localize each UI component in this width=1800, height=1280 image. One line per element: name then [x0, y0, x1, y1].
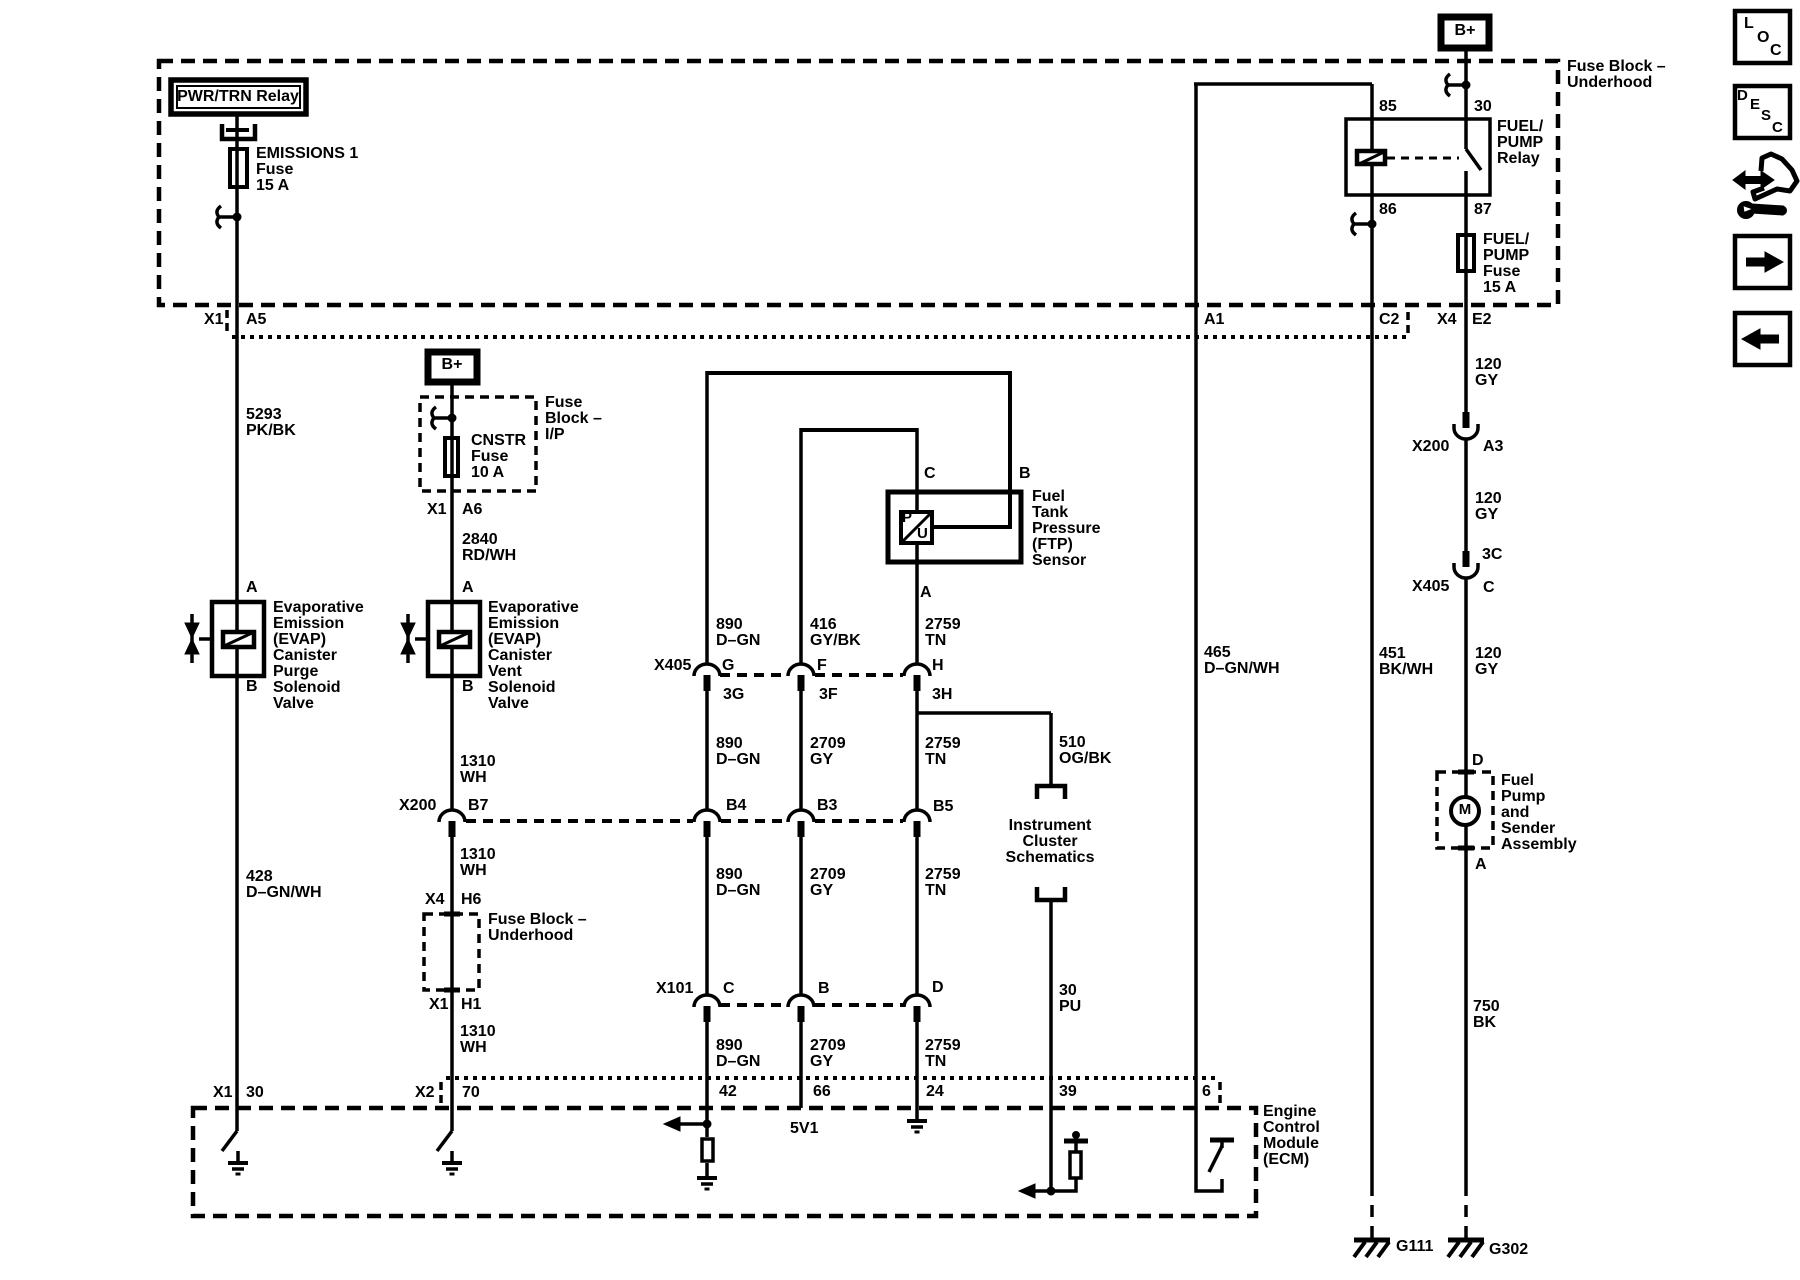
svg-text:TN: TN — [925, 1053, 946, 1070]
relay name label — [1497, 118, 1544, 167]
svg-text:15 A: 15 A — [1483, 279, 1517, 296]
svg-text:and: and — [1501, 804, 1529, 821]
wire: 30 PU to ECM pin 39 — [1049, 902, 1053, 1191]
svg-text:465: 465 — [1204, 644, 1231, 661]
connector X405 G — [694, 657, 734, 691]
svg-text:416: 416 — [810, 616, 837, 633]
svg-text:X1: X1 — [427, 501, 447, 518]
svg-text:87: 87 — [1474, 201, 1492, 218]
relay coil — [1357, 151, 1385, 164]
svg-text:A3: A3 — [1483, 438, 1504, 455]
svg-text:G111: G111 — [1396, 1238, 1433, 1255]
forward arrow icon box — [1735, 236, 1790, 288]
svg-text:890: 890 — [716, 1037, 743, 1054]
fuse block I/P dashed box — [420, 397, 536, 491]
svg-text:Block –: Block – — [545, 410, 602, 427]
svg-text:BK: BK — [1473, 1014, 1497, 1031]
svg-text:FUEL/: FUEL/ — [1497, 118, 1544, 135]
svg-text:24: 24 — [926, 1083, 944, 1100]
engine control module dashed box — [193, 1108, 1256, 1216]
svg-text:Assembly: Assembly — [1501, 836, 1577, 853]
svg-text:1310: 1310 — [460, 846, 496, 863]
svg-text:B: B — [818, 980, 830, 997]
svg-text:Solenoid: Solenoid — [488, 679, 556, 696]
svg-text:WH: WH — [460, 1039, 487, 1056]
svg-text:Control: Control — [1263, 1119, 1320, 1136]
PWR/TRN Relay label box — [171, 80, 306, 114]
wire label 1310 WH (middle) — [460, 846, 496, 879]
svg-text:2709: 2709 — [810, 735, 846, 752]
svg-text:D–GN: D–GN — [716, 632, 760, 649]
svg-text:PUMP: PUMP — [1483, 247, 1530, 264]
relay pin labels 86 87 — [1379, 201, 1492, 218]
svg-text:A: A — [462, 579, 474, 596]
svg-text:30: 30 — [246, 1084, 264, 1101]
X1 H1 labels — [429, 996, 482, 1013]
svg-text:Fuel: Fuel — [1032, 488, 1065, 505]
svg-text:S: S — [1761, 107, 1771, 124]
wire labels 890 D-GN / 416 GY/BK / 2759 TN — [716, 616, 760, 649]
svg-text:X4: X4 — [425, 891, 445, 908]
connector row X101 dashed line — [720, 1003, 787, 1007]
svg-text:Emission: Emission — [488, 615, 559, 632]
connector X101 D — [904, 979, 944, 1022]
X2 70 pin labels — [415, 1082, 480, 1105]
ECM pin 70 switch to ground — [437, 1131, 462, 1174]
wire: ECM pin 6 to fuel pump relay coil (ckt 465 D-GN/WH) — [1194, 84, 1198, 1108]
svg-text:D–GN: D–GN — [716, 882, 760, 899]
svg-text:Underhood: Underhood — [1567, 74, 1652, 91]
C2 label — [1379, 311, 1408, 338]
wire label 1310 WH (upper) — [460, 753, 496, 786]
wire: fuel pump to ground G302 (ckt 750 BK) — [1464, 848, 1468, 1184]
svg-text:451: 451 — [1379, 645, 1406, 662]
svg-text:2759: 2759 — [925, 866, 961, 883]
A1 label — [1204, 311, 1225, 328]
svg-text:D–GN: D–GN — [716, 1053, 760, 1070]
fuel pump motor — [1451, 797, 1479, 825]
svg-text:Fuse: Fuse — [545, 394, 582, 411]
fuel pump assembly label — [1501, 772, 1577, 853]
svg-text:6: 6 — [1202, 1083, 1211, 1100]
svg-text:2759: 2759 — [925, 1037, 961, 1054]
connector X405 C (inline) — [1412, 551, 1495, 596]
svg-text:Fuse: Fuse — [1483, 263, 1520, 280]
instrument cluster top bracket — [1037, 786, 1065, 799]
fuel pump relay box — [1346, 119, 1490, 195]
svg-text:Fuse Block –: Fuse Block – — [488, 911, 587, 928]
wire: FTP sensor A to X405 H (ckt 2759 TN) — [915, 543, 919, 664]
wire below X405 C to fuel pump — [1464, 578, 1468, 848]
wire: relay 87 through fuel pump fuse — [1464, 195, 1468, 412]
separator right of pin 6 — [1218, 1082, 1222, 1105]
relay pin labels 85 30 — [1379, 98, 1492, 115]
svg-text:A1: A1 — [1204, 311, 1225, 328]
svg-text:RD/WH: RD/WH — [462, 547, 516, 564]
svg-text:D–GN/WH: D–GN/WH — [246, 884, 322, 901]
svg-text:F: F — [817, 657, 827, 674]
svg-text:Canister: Canister — [488, 647, 552, 664]
svg-text:X101: X101 — [656, 980, 693, 997]
svg-text:TN: TN — [925, 632, 946, 649]
wire label 1310 WH (lower) — [460, 1023, 496, 1056]
X1 A6 labels — [427, 501, 483, 518]
ECM pin number labels 42 66 24 39 6 — [719, 1083, 1211, 1100]
svg-text:85: 85 — [1379, 98, 1397, 115]
fuel pump and sender assembly dashed box — [1437, 772, 1493, 848]
X1 30 pin labels — [213, 1084, 264, 1101]
svg-text:O: O — [1757, 29, 1769, 46]
svg-text:Relay: Relay — [1497, 150, 1540, 167]
svg-text:B4: B4 — [726, 797, 747, 814]
svg-text:GY: GY — [1475, 661, 1498, 678]
svg-text:PK/BK: PK/BK — [246, 422, 296, 439]
svg-text:3H: 3H — [932, 686, 952, 703]
connector X101 C — [694, 980, 735, 1022]
svg-text:86: 86 — [1379, 201, 1397, 218]
fuse block underhood dashed box — [159, 61, 1558, 305]
wire: relay 86 to ground G111 (ckt 451) — [1370, 195, 1374, 1184]
connector row X405 dashed line — [720, 673, 787, 677]
svg-text:C: C — [1770, 42, 1782, 59]
connector X200 B3 — [788, 797, 838, 837]
svg-text:C: C — [1772, 119, 1783, 136]
pin D label (fuel pump) — [1472, 752, 1484, 769]
pin A label (fuel pump) — [1475, 856, 1487, 873]
svg-text:66: 66 — [813, 1083, 831, 1100]
svg-text:Sender: Sender — [1501, 820, 1555, 837]
svg-text:Fuse: Fuse — [256, 161, 293, 178]
ground G302 — [1448, 1240, 1528, 1258]
svg-text:B3: B3 — [817, 797, 838, 814]
ECM pin 24 internal ground — [907, 1108, 927, 1132]
svg-text:X4: X4 — [1437, 311, 1457, 328]
wire label 510 OG/BK — [1059, 734, 1112, 767]
svg-text:Valve: Valve — [273, 695, 314, 712]
svg-text:A: A — [246, 579, 258, 596]
svg-text:Solenoid: Solenoid — [273, 679, 341, 696]
wires into ECM — [705, 1020, 709, 1137]
svg-text:Canister: Canister — [273, 647, 337, 664]
svg-text:70: 70 — [462, 1084, 480, 1101]
svg-text:X405: X405 — [654, 657, 691, 674]
svg-text:C2: C2 — [1379, 311, 1400, 328]
svg-text:Engine: Engine — [1263, 1103, 1316, 1120]
wire: PWR/TRN relay feed to EMISSIONS fuse and down (ckt 5293) — [235, 114, 239, 1131]
EVAP canister vent solenoid valve — [401, 602, 480, 676]
svg-text:GY/BK: GY/BK — [810, 632, 861, 649]
fuse block I/P label — [545, 394, 602, 443]
svg-text:B: B — [1019, 465, 1031, 482]
svg-text:Fuse: Fuse — [471, 448, 508, 465]
svg-text:FUEL/: FUEL/ — [1483, 231, 1530, 248]
svg-text:Fuel: Fuel — [1501, 772, 1534, 789]
wire labels third set — [716, 866, 760, 899]
svg-text:U: U — [917, 525, 928, 542]
branch wire to instrument cluster (ckt 510) — [916, 711, 1051, 715]
svg-text:B+: B+ — [1455, 22, 1476, 39]
wires between X405 and X200 rows — [705, 691, 709, 810]
svg-text:Evaporative: Evaporative — [488, 599, 579, 616]
svg-text:2840: 2840 — [462, 531, 498, 548]
connector X200 B7 — [399, 797, 489, 837]
svg-text:Pressure: Pressure — [1032, 520, 1101, 537]
pin A label (purge solenoid) — [246, 579, 258, 596]
svg-text:Emission: Emission — [273, 615, 344, 632]
connector row X1/A5 dotted line — [232, 335, 1406, 339]
svg-text:WH: WH — [460, 862, 487, 879]
pin C label — [924, 465, 936, 482]
relay coil feed wires — [1370, 119, 1374, 152]
svg-text:D–GN/WH: D–GN/WH — [1204, 660, 1280, 677]
svg-text:P: P — [902, 509, 912, 526]
svg-text:2709: 2709 — [810, 866, 846, 883]
svg-text:Fuse Block –: Fuse Block – — [1567, 58, 1666, 75]
svg-text:M: M — [1459, 801, 1472, 818]
svg-text:Valve: Valve — [488, 695, 529, 712]
svg-text:OG/BK: OG/BK — [1059, 750, 1112, 767]
pin A label (FTP) — [920, 584, 932, 601]
svg-text:30: 30 — [1059, 982, 1077, 999]
svg-text:CNSTR: CNSTR — [471, 432, 527, 449]
svg-text:Tank: Tank — [1032, 504, 1068, 521]
wire label 30 PU — [1059, 982, 1081, 1015]
svg-text:X2: X2 — [415, 1084, 435, 1101]
3C label — [1482, 546, 1503, 563]
svg-text:C: C — [1483, 579, 1495, 596]
connector X200 B4 — [694, 797, 747, 837]
svg-text:B: B — [246, 678, 258, 695]
svg-text:(FTP): (FTP) — [1032, 536, 1073, 553]
svg-text:GY: GY — [810, 751, 833, 768]
svg-text:Purge: Purge — [273, 663, 318, 680]
svg-text:C: C — [723, 980, 735, 997]
ECM pin 6 internal: driver switch — [1196, 1108, 1234, 1191]
svg-text:H6: H6 — [461, 891, 482, 908]
wire below X200 A3 — [1464, 439, 1468, 551]
svg-text:42: 42 — [719, 1083, 737, 1100]
wire: FTP sensor C to X405 F (ckt 416 GY/BK) — [801, 428, 917, 432]
svg-text:Instrument: Instrument — [1009, 817, 1092, 834]
pin B label (purge solenoid) — [246, 678, 258, 695]
svg-text:X1: X1 — [204, 311, 224, 328]
X1 A5 labels — [204, 310, 267, 334]
wire label 120 GY (third) — [1475, 645, 1502, 678]
fuse EMISSIONS 1 15 A — [230, 145, 358, 194]
EVAP canister purge solenoid valve — [185, 602, 264, 676]
wire label 428 D-GN/WH — [246, 868, 322, 901]
wire label 5293 PK/BK — [246, 406, 296, 439]
svg-text:Cluster: Cluster — [1022, 833, 1077, 850]
svg-text:GY: GY — [1475, 506, 1498, 523]
svg-text:D–GN: D–GN — [716, 751, 760, 768]
relay coil-contact dashed link — [1387, 157, 1459, 160]
P/U transducer symbol — [901, 509, 932, 543]
svg-text:B5: B5 — [933, 798, 954, 815]
X405 label — [654, 657, 691, 674]
wire: B+ to CNSTR fuse down to vent solenoid (ckt 2840/1310) — [450, 382, 454, 810]
5V1 label — [790, 1120, 819, 1137]
svg-text:890: 890 — [716, 735, 743, 752]
pin B label (vent solenoid) — [462, 678, 474, 695]
harness repair icon (arrows and wrench) — [1733, 154, 1797, 219]
svg-text:428: 428 — [246, 868, 273, 885]
wire label 2840 RD/WH — [462, 531, 516, 564]
connector X200 A3 (inline) — [1412, 412, 1504, 455]
svg-text:BK/WH: BK/WH — [1379, 661, 1433, 678]
pin B label — [1019, 465, 1031, 482]
svg-text:I/P: I/P — [545, 426, 565, 443]
ECM pin 30 switch to ground — [222, 1131, 248, 1174]
wire label 120 GY (second) — [1475, 490, 1502, 523]
svg-text:Module: Module — [1263, 1135, 1319, 1152]
svg-text:TN: TN — [925, 882, 946, 899]
B+ terminal (underhood) — [1441, 17, 1489, 48]
svg-text:D: D — [932, 979, 944, 996]
wire: B+ into relay pin 30 — [1464, 48, 1468, 121]
svg-text:120: 120 — [1475, 356, 1502, 373]
svg-text:GY: GY — [810, 1053, 833, 1070]
svg-text:Pump: Pump — [1501, 788, 1546, 805]
DESC icon box — [1735, 86, 1790, 138]
clip tap junction below relay pin 86 — [1352, 213, 1376, 235]
svg-text:3C: 3C — [1482, 546, 1503, 563]
svg-text:2759: 2759 — [925, 616, 961, 633]
svg-text:Evaporative: Evaporative — [273, 599, 364, 616]
svg-text:5V1: 5V1 — [790, 1120, 819, 1137]
svg-text:3G: 3G — [723, 686, 744, 703]
wire: FTP sensor B to X405 G (ckt 890 D-GN) — [707, 371, 1010, 375]
3G 3F 3H labels — [723, 686, 952, 703]
fuel tank pressure sensor box — [888, 492, 1021, 562]
fuse block underhood pass-through dashed box — [424, 914, 479, 990]
wire labels second set — [716, 735, 760, 768]
svg-text:TN: TN — [925, 751, 946, 768]
X4 E2 labels — [1437, 311, 1492, 328]
svg-text:E2: E2 — [1472, 311, 1492, 328]
svg-text:A6: A6 — [462, 501, 483, 518]
svg-text:A: A — [920, 584, 932, 601]
svg-text:H1: H1 — [461, 996, 482, 1013]
wire label 465 D-GN/WH — [1204, 644, 1280, 677]
clip tap junction below emissions fuse — [217, 206, 241, 228]
svg-text:510: 510 — [1059, 734, 1086, 751]
dashed wire end to G111 — [1370, 1184, 1374, 1240]
svg-text:G: G — [722, 657, 734, 674]
X101 label — [656, 980, 693, 997]
svg-text:B+: B+ — [442, 356, 463, 373]
svg-text:30: 30 — [1474, 98, 1492, 115]
svg-text:15 A: 15 A — [256, 177, 290, 194]
svg-text:2759: 2759 — [925, 735, 961, 752]
svg-text:B7: B7 — [468, 797, 489, 814]
svg-text:B: B — [462, 678, 474, 695]
svg-text:G302: G302 — [1489, 1241, 1528, 1258]
svg-text:Vent: Vent — [488, 663, 522, 680]
svg-text:10 A: 10 A — [471, 464, 505, 481]
engine control module label — [1263, 1103, 1320, 1168]
svg-text:890: 890 — [716, 616, 743, 633]
back arrow icon box — [1735, 313, 1790, 365]
ECM pin 39 internal: arrow, pull-up resistor — [1019, 1132, 1088, 1199]
connector X101 B — [788, 980, 830, 1022]
wire label 451 BK/WH — [1379, 645, 1433, 678]
svg-text:X200: X200 — [399, 797, 436, 814]
svg-text:(EVAP): (EVAP) — [488, 631, 541, 648]
svg-text:PWR/TRN Relay: PWR/TRN Relay — [177, 88, 299, 105]
connector X405 F — [788, 657, 827, 691]
svg-text:A: A — [1475, 856, 1487, 873]
svg-text:2709: 2709 — [810, 1037, 846, 1054]
svg-text:(ECM): (ECM) — [1263, 1151, 1309, 1168]
svg-text:X1: X1 — [429, 996, 449, 1013]
svg-text:EMISSIONS 1: EMISSIONS 1 — [256, 145, 358, 162]
wire label 120 GY (first) — [1475, 356, 1502, 389]
svg-text:120: 120 — [1475, 645, 1502, 662]
svg-text:X200: X200 — [1412, 438, 1449, 455]
svg-text:C: C — [924, 465, 936, 482]
fuse CNSTR 10 A — [445, 432, 527, 481]
wire label 750 BK — [1473, 998, 1500, 1031]
svg-text:(EVAP): (EVAP) — [273, 631, 326, 648]
svg-text:3F: 3F — [819, 686, 838, 703]
vent solenoid description — [488, 599, 579, 712]
connector row X2 dotted line — [446, 1076, 1220, 1080]
instrument cluster schematics label — [1006, 817, 1095, 866]
clip tap junction at CNSTR fuse — [432, 407, 456, 429]
svg-text:D: D — [1737, 87, 1748, 104]
relay contact switch — [1466, 121, 1481, 195]
svg-text:5293: 5293 — [246, 406, 282, 423]
ECM pin 42 internal: arrow, resistor, ground — [664, 1117, 717, 1189]
B+ terminal (I/P) — [428, 352, 477, 382]
svg-text:L: L — [1744, 15, 1754, 32]
instrument cluster bottom bracket — [1037, 887, 1065, 900]
svg-text:Sensor: Sensor — [1032, 552, 1086, 569]
FTP sensor label — [1032, 488, 1101, 569]
dashed wire end to G302 — [1464, 1184, 1468, 1240]
fuse FUEL/PUMP 15 A — [1458, 231, 1530, 296]
svg-text:GY: GY — [810, 882, 833, 899]
svg-text:1310: 1310 — [460, 1023, 496, 1040]
svg-text:A5: A5 — [246, 311, 267, 328]
connector row X200 dashed line — [466, 819, 693, 823]
wire: 1310 WH below X200 — [450, 835, 454, 1131]
svg-text:GY: GY — [1475, 372, 1498, 389]
svg-text:1310: 1310 — [460, 753, 496, 770]
svg-text:890: 890 — [716, 866, 743, 883]
wire labels fourth set — [716, 1037, 760, 1070]
purge solenoid description — [273, 599, 364, 712]
svg-text:X405: X405 — [1412, 578, 1449, 595]
svg-text:E: E — [1750, 96, 1760, 113]
LOC icon box — [1735, 11, 1790, 63]
svg-text:PU: PU — [1059, 998, 1081, 1015]
fuse block underhood pass-through label — [488, 911, 587, 944]
pin A label (vent solenoid) — [462, 579, 474, 596]
ground G111 — [1354, 1238, 1433, 1257]
fuse block underhood label — [1567, 58, 1666, 91]
svg-text:X1: X1 — [213, 1084, 233, 1101]
connector X405 H — [904, 657, 944, 691]
svg-text:39: 39 — [1059, 1083, 1077, 1100]
X4 H6 labels — [425, 891, 482, 908]
svg-text:H: H — [932, 657, 944, 674]
svg-text:Underhood: Underhood — [488, 927, 573, 944]
wires between X200 and X101 rows — [705, 835, 709, 995]
connector X200 B5 — [904, 798, 954, 837]
fuse holder bracket — [222, 124, 255, 139]
